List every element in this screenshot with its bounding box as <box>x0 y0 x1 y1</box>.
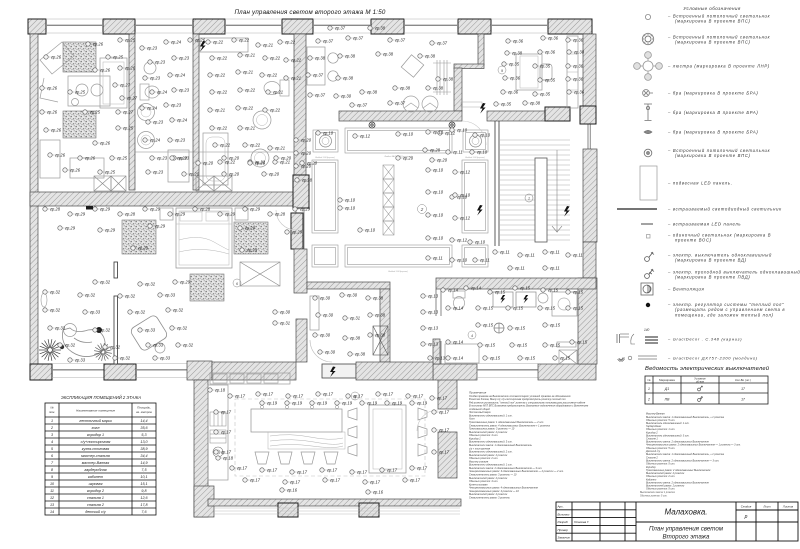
light гр.15 <box>570 340 588 345</box>
light гр.37 <box>308 93 326 98</box>
light гр.32 <box>93 280 111 285</box>
kitchen room number 5 <box>351 392 359 400</box>
bath wing inner wall lower <box>436 341 441 364</box>
hall shaft box 1 <box>383 165 394 179</box>
svg-text:гр.15: гр.15 <box>483 323 494 328</box>
svg-text:гр.10: гр.10 <box>323 131 334 136</box>
svg-text:гр.10: гр.10 <box>433 213 444 218</box>
svg-text:Вспомог: Вспомог <box>558 512 571 516</box>
svg-text:гр.20: гр.20 <box>189 172 200 177</box>
study curvy sofa <box>62 328 105 357</box>
light гр.36 <box>566 64 584 69</box>
svg-text:11: 11 <box>50 489 54 493</box>
kitchen top counter <box>210 373 290 384</box>
svg-text:гр.25: гр.25 <box>75 90 86 95</box>
light гр.12 <box>450 238 468 243</box>
svg-text:гр.17: гр.17 <box>439 450 450 455</box>
light гр.17 <box>350 470 368 475</box>
svg-text:гр.17: гр.17 <box>370 480 381 485</box>
entry door swing <box>310 340 332 362</box>
svg-text:гр.10: гр.10 <box>345 198 356 203</box>
interior wall bath/laundry <box>193 34 199 190</box>
light гр.26 <box>40 86 58 91</box>
office shelf east <box>567 36 578 108</box>
svg-text:гр.29: гр.29 <box>245 226 256 231</box>
svg-text:гр.22: гр.22 <box>250 143 261 148</box>
svg-text:гр.26: гр.26 <box>85 156 96 161</box>
light гр.22 <box>236 106 254 111</box>
svg-text:гр.26: гр.26 <box>47 86 58 91</box>
svg-text:(маркировка В проекте ВПС): (маркировка В проекте ВПС) <box>675 153 751 158</box>
svg-text:гр.38: гр.38 <box>425 54 436 59</box>
laundry tub inner <box>206 137 225 181</box>
hall shaft box 5 <box>383 221 394 235</box>
light гр.30 <box>318 350 336 355</box>
electrical cabinet box <box>322 364 356 378</box>
light гр.27 <box>120 96 138 101</box>
svg-text:кухня-столовая: кухня-столовая <box>82 447 110 451</box>
light гр.29 <box>243 207 261 212</box>
bath wing west stub <box>433 339 440 364</box>
light гр.11 <box>518 253 535 258</box>
light гр.14 <box>446 340 464 345</box>
svg-text:гр.20: гр.20 <box>255 161 266 166</box>
svg-text:гр.17: гр.17 <box>237 466 248 471</box>
svg-text:гр.16: гр.16 <box>287 488 298 493</box>
light гр.13 <box>421 294 439 299</box>
svg-text:15,1: 15,1 <box>140 482 147 486</box>
svg-text:гр.26: гр.26 <box>51 55 62 60</box>
svg-text:гр.20: гр.20 <box>281 156 292 161</box>
dark mark under corridor <box>86 206 93 210</box>
light гр.23 <box>164 103 182 108</box>
playroom crib inner <box>103 62 124 104</box>
svg-text:Провер: Провер <box>558 528 569 532</box>
bottom-left wall block 1 <box>30 364 52 380</box>
light гр.13 <box>421 342 439 347</box>
lightning mark 2 <box>330 367 336 378</box>
svg-text:гр.15: гр.15 <box>550 323 561 328</box>
svg-text:гр.38: гр.38 <box>345 54 356 59</box>
ceiling rose NW inner <box>322 138 329 145</box>
switch schedule table <box>645 376 768 404</box>
light гр.38 <box>567 50 585 55</box>
office chair <box>540 64 552 80</box>
light гр.23 <box>172 156 190 161</box>
light гр.23 <box>140 46 158 51</box>
svg-text:коридор 2: коридор 2 <box>87 489 104 493</box>
laundry toilet <box>264 80 289 96</box>
light гр.32 <box>128 310 146 315</box>
top window 5 <box>404 19 458 33</box>
svg-text:Badkeit 1:50 (карниз): Badkeit 1:50 (карниз) <box>388 270 408 273</box>
svg-text:гр.21: гр.21 <box>263 43 273 48</box>
light гр.35 <box>533 64 551 69</box>
svg-text:Наименование помещения: Наименование помещения <box>76 409 115 413</box>
light гр.17 <box>290 470 308 475</box>
study partition wall upper <box>114 262 118 278</box>
light гр.15 <box>476 323 494 328</box>
svg-text:гр.32: гр.32 <box>85 293 96 298</box>
wardrobe shaft box a1 <box>94 176 111 191</box>
hall pouf 1 <box>328 53 338 63</box>
svg-text:гр.11: гр.11 <box>515 266 525 271</box>
entry north wall <box>307 282 390 289</box>
svg-text:гр.21: гр.21 <box>273 90 283 95</box>
svg-text:гр.23: гр.23 <box>179 56 190 61</box>
light гр.24 <box>164 40 182 45</box>
light гр.17 <box>214 450 232 455</box>
kitchen sink grid <box>210 412 226 443</box>
left outer wall <box>30 34 38 364</box>
svg-text:гр.17: гр.17 <box>439 410 450 415</box>
light гр.17 <box>323 478 341 483</box>
kitchen bottom wall <box>208 499 461 506</box>
master wardrobe <box>240 262 280 286</box>
svg-text:гр.38: гр.38 <box>375 26 386 31</box>
svg-text:коридор 1: коридор 1 <box>87 433 104 437</box>
washer bolt 2 <box>523 295 528 303</box>
light гр.33 <box>68 358 86 363</box>
svg-text:гр.17: гр.17 <box>250 478 261 483</box>
svg-text:гр.31: гр.31 <box>350 316 360 321</box>
svg-text:1: 1 <box>528 196 530 201</box>
svg-text:2: 2 <box>50 426 53 430</box>
light гр.10 <box>468 240 486 245</box>
light гр.10 <box>450 195 468 200</box>
svg-text:гр.14: гр.14 <box>453 356 464 361</box>
svg-text:помещении, где заложен тепл: помещении, где заложен теплый пол) <box>675 312 774 317</box>
svg-text:гр.28: гр.28 <box>200 207 211 212</box>
playroom table seat 1 <box>76 84 88 96</box>
svg-text:гр.37: гр.37 <box>357 103 368 108</box>
light гр.15 <box>510 343 528 348</box>
bath1 washer inner <box>141 107 151 117</box>
svg-text:спальня 2: спальня 2 <box>87 503 104 507</box>
hall ceiling frame SW <box>312 245 338 267</box>
light гр.29 <box>93 207 111 212</box>
svg-text:гр.17: гр.17 <box>323 392 334 397</box>
light гр.15 <box>518 356 536 361</box>
svg-text:ЭКСПЛИКАЦИЯ ПОМЕЩЕНИЙ 2 ЭТА: ЭКСПЛИКАЦИЯ ПОМЕЩЕНИЙ 2 ЭТАЖА <box>61 395 141 400</box>
svg-text:гр.12: гр.12 <box>360 134 371 139</box>
svg-text:гр.38: гр.38 <box>373 296 384 301</box>
svg-text:гр.20: гр.20 <box>269 172 280 177</box>
light гр.30 <box>313 333 331 338</box>
light гр.33 <box>138 328 156 333</box>
living dark blob <box>60 345 64 349</box>
svg-text:гр.29: гр.29 <box>225 212 236 217</box>
light гр.33 <box>83 310 101 315</box>
light гр.10 <box>426 190 444 195</box>
legend item pass-through switch <box>645 269 654 278</box>
svg-text:гр.18: гр.18 <box>223 456 234 461</box>
svg-text:35,6: 35,6 <box>140 426 148 430</box>
svg-text:гр.10: гр.10 <box>457 258 468 263</box>
light гр.20 <box>262 172 280 177</box>
light гр.25 <box>118 38 136 43</box>
svg-text:гр.30: гр.30 <box>320 296 331 301</box>
svg-text:гр.15: гр.15 <box>520 286 531 291</box>
svg-text:гр.38: гр.38 <box>315 56 326 61</box>
light гр.35 <box>538 78 556 83</box>
svg-text:гр.17: гр.17 <box>410 478 421 483</box>
light гр.17 <box>410 466 428 471</box>
svg-text:гр.20: гр.20 <box>203 161 214 166</box>
light гр.10 <box>450 258 468 263</box>
light гр.17 <box>256 392 274 397</box>
light гр.19 <box>285 401 303 406</box>
svg-text:гр.30: гр.30 <box>375 333 386 338</box>
terrace deck lines <box>214 508 460 514</box>
svg-text:гр.23: гр.23 <box>157 156 168 161</box>
office tag box <box>461 102 482 107</box>
svg-text:мастер-спальня: мастер-спальня <box>81 454 110 458</box>
svg-text:гр.29: гр.29 <box>105 228 116 233</box>
light гр.19 <box>385 401 403 406</box>
hall wall bracket <box>433 60 451 95</box>
bath wing inner wall upper <box>436 289 441 316</box>
light гр.30 <box>340 293 358 298</box>
svg-text:гр.22: гр.22 <box>245 88 256 93</box>
playroom corner sofa <box>40 42 74 102</box>
svg-text:гр.11: гр.11 <box>573 253 583 258</box>
svg-text:гр.17: гр.17 <box>387 468 398 473</box>
light гр.16 <box>280 488 298 493</box>
svg-text:Выключатели одноклавишный: 1: Выключатели одноклавишный: 1 шт. <box>469 414 513 417</box>
stair guard wall <box>495 121 499 246</box>
light гр.35 <box>533 92 551 97</box>
svg-text:гр.22: гр.22 <box>270 56 281 61</box>
svg-text:гр.37: гр.37 <box>323 39 334 44</box>
light гр.22 <box>206 40 224 45</box>
light гр.17 <box>214 430 232 435</box>
svg-text:14,9: 14,9 <box>140 461 147 465</box>
light гр.22 <box>210 90 228 95</box>
light гр.26 <box>86 42 104 47</box>
light гр.27 <box>113 83 131 88</box>
svg-text:гр.32: гр.32 <box>100 280 111 285</box>
schedule switch icon 1 <box>698 386 703 391</box>
svg-text:гр.23: гр.23 <box>179 88 190 93</box>
light гр.14 <box>446 356 464 361</box>
light гр.15 <box>538 306 556 311</box>
light гр.23 <box>168 138 186 143</box>
svg-text:гр.28: гр.28 <box>125 212 136 217</box>
svg-text:гр.17: гр.17 <box>297 470 308 475</box>
top wall pillar 4 <box>282 19 313 34</box>
svg-text:гр.19: гр.19 <box>267 401 278 406</box>
light гр.36 <box>506 39 524 44</box>
svg-text:гр.13: гр.13 <box>428 342 439 347</box>
pendant row over table <box>260 405 338 408</box>
light гр.15 <box>483 356 501 361</box>
svg-text:Кол-Во (шт.): Кол-Во (шт.) <box>735 378 751 382</box>
svg-text:гр.18: гр.18 <box>215 388 226 393</box>
light гр.38 <box>376 52 394 57</box>
light гр.20 <box>294 164 312 169</box>
office west wall lower <box>454 68 462 111</box>
svg-text:Ведомость электрических выкл: Ведомость электрических выключателей <box>645 365 770 372</box>
svg-text:Badkeit 1:50 (карниз): Badkeit 1:50 (карниз) <box>465 156 485 159</box>
top window 2 <box>135 19 193 33</box>
light гр.11 <box>508 266 525 271</box>
door swing corridor <box>462 121 486 145</box>
light гр.13 <box>428 356 446 361</box>
svg-text:гр.11: гр.11 <box>550 250 560 255</box>
light гр.33 <box>146 343 164 348</box>
svg-text:гр.16: гр.16 <box>373 490 384 495</box>
svg-text:гр.29: гр.29 <box>250 207 261 212</box>
light гр.32 <box>113 356 131 361</box>
hall west wall thin part <box>296 204 304 282</box>
svg-text:– Вентиляция: – Вентиляция <box>667 287 704 292</box>
svg-text:гр.12: гр.12 <box>457 238 468 243</box>
kitchen right wall upper <box>438 375 457 409</box>
office west wall step <box>454 64 484 69</box>
svg-text:гр.17: гр.17 <box>439 428 450 433</box>
svg-text:2: 2 <box>420 207 424 212</box>
light гр.17 <box>346 394 364 399</box>
svg-text:гр.19: гр.19 <box>342 401 353 406</box>
svg-text:гр.21: гр.21 <box>245 126 255 131</box>
light гр.28 <box>43 207 61 212</box>
svg-text:Обычных розеток: 5 шт.: Обычных розеток: 5 шт. <box>646 487 675 490</box>
svg-text:гр.26: гр.26 <box>125 66 136 71</box>
svg-text:гр.29: гр.29 <box>175 212 186 217</box>
bottom-left corner wall <box>187 361 212 380</box>
svg-text:План управления светом: План управления светом <box>649 526 724 533</box>
svg-text:гр.20: гр.20 <box>437 158 448 163</box>
light гр.10 <box>450 128 468 133</box>
master rug west <box>122 220 156 254</box>
light гр.22 <box>243 143 261 148</box>
svg-text:гр.10: гр.10 <box>477 150 488 155</box>
light гр.17 <box>260 468 278 473</box>
svg-text:гр.38: гр.38 <box>343 76 354 81</box>
svg-text:проекте ВОС): проекте ВОС) <box>675 238 712 243</box>
svg-text:гр.10: гр.10 <box>403 132 414 137</box>
light гр.10 <box>470 150 488 155</box>
light гр.38 <box>505 51 523 56</box>
legend item recessed LED strip <box>617 208 657 210</box>
svg-text:гр.15: гр.15 <box>573 290 584 295</box>
light гр.33 <box>48 326 66 331</box>
svg-text:гр.14: гр.14 <box>448 288 459 293</box>
lightning mark 5 <box>480 103 486 114</box>
playroom crib <box>100 58 127 108</box>
top wall pillar 6 <box>458 19 491 34</box>
svg-text:гр.30: гр.30 <box>325 350 336 355</box>
svg-text:гр.25: гр.25 <box>105 170 116 175</box>
interior wall playroom/bath <box>129 34 135 190</box>
svg-text:гр.29: гр.29 <box>150 207 161 212</box>
kitchen hob symbol <box>213 447 223 457</box>
light гр.38 <box>348 352 366 357</box>
living dark rug <box>190 274 224 301</box>
svg-text:гр.23: гр.23 <box>175 138 186 143</box>
light гр.17 <box>380 468 398 473</box>
room number 6 <box>233 279 241 287</box>
light гр.23 <box>143 76 161 81</box>
svg-text:гр.21: гр.21 <box>291 76 301 81</box>
svg-text:гр.20: гр.20 <box>403 156 414 161</box>
living plant 1 <box>39 339 61 361</box>
svg-text:Маркировка: Маркировка <box>659 378 675 382</box>
light гр.21 <box>266 90 283 95</box>
light гр.20 <box>222 156 240 161</box>
light гр.26 <box>118 66 136 71</box>
svg-text:гр.10: гр.10 <box>433 190 444 195</box>
light гр.20 <box>294 138 312 143</box>
light гр.11 <box>566 253 583 258</box>
entry east wall <box>380 289 390 362</box>
light гр.26 <box>93 68 111 73</box>
svg-text:детский с/у: детский с/у <box>85 510 107 514</box>
svg-text:гр.15: гр.15 <box>560 356 571 361</box>
svg-text:гр.33: гр.33 <box>90 310 101 315</box>
door swing kitchen <box>417 410 438 431</box>
svg-text:спальня 1: спальня 1 <box>87 496 104 500</box>
svg-text:38,9: 38,9 <box>140 447 147 451</box>
svg-text:гр.29: гр.29 <box>180 280 191 285</box>
svg-text:гр.15: гр.15 <box>548 288 559 293</box>
terrace pillar 2 <box>359 503 379 517</box>
svg-text:– бра (маркировка В проект: – бра (маркировка В проекте БРА) <box>667 130 758 135</box>
svg-text:гр.15: гр.15 <box>545 306 556 311</box>
hall west wall box 1 <box>293 175 309 208</box>
svg-text:2: 2 <box>647 398 650 402</box>
light гр.17 <box>230 466 248 471</box>
svg-text:гр.23: гр.23 <box>153 120 164 125</box>
svg-text:гр.17: гр.17 <box>235 394 246 399</box>
wall mirror <box>41 293 47 307</box>
laundry basin 2 <box>251 149 269 167</box>
entry vent shaft <box>373 326 388 355</box>
svg-text:гр.11: гр.11 <box>433 256 443 261</box>
svg-text:гр.17: гр.17 <box>357 470 368 475</box>
light гр.32 <box>166 308 184 313</box>
light гр.15 <box>553 356 571 361</box>
svg-text:холл: холл <box>91 426 100 430</box>
svg-text:Листов: Листов <box>782 505 794 509</box>
legend item switch <box>645 252 654 261</box>
door swing living <box>276 210 296 230</box>
svg-text:гр.36: гр.36 <box>513 39 524 44</box>
hall pouf 2 <box>328 71 338 81</box>
svg-text:гр.35: гр.35 <box>540 64 551 69</box>
svg-text:12: 12 <box>50 496 54 500</box>
light гр.38 <box>426 86 444 91</box>
svg-text:гр.29: гр.29 <box>65 226 76 231</box>
legend item recessed LED panel <box>641 223 653 225</box>
svg-text:14: 14 <box>50 510 54 514</box>
svg-text:гр.23: гр.23 <box>147 46 158 51</box>
master nightstand west <box>160 208 173 220</box>
light гр.37 <box>388 101 406 106</box>
svg-text:гр.36: гр.36 <box>545 50 556 55</box>
svg-text:гр.32: гр.32 <box>100 328 111 333</box>
svg-text:гр.24: гр.24 <box>175 73 186 78</box>
terrace pillar 1 <box>278 503 298 517</box>
light гр.23 <box>150 156 168 161</box>
svg-text:14,4: 14,4 <box>140 419 147 423</box>
svg-text:гр.32: гр.32 <box>120 356 131 361</box>
light гр.10 <box>358 228 376 233</box>
svg-text:1: 1 <box>648 387 650 391</box>
light гр.36 <box>501 90 519 95</box>
svg-text:гр.38: гр.38 <box>530 101 541 106</box>
